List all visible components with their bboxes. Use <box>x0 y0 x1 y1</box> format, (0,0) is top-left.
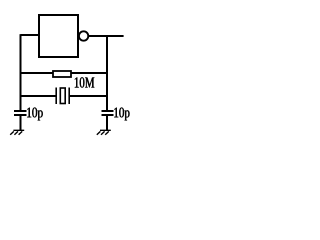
label 10p for capacitor C1 <box>27 108 43 121</box>
ground right <box>97 130 111 135</box>
wire crystal left <box>21 95 57 97</box>
wire C1 to ground <box>20 115 22 130</box>
crystal Y1 right plate <box>68 88 70 105</box>
wire left rail node A <box>20 34 22 111</box>
capacitor C2 top plate <box>102 110 114 112</box>
wire right rail node B <box>106 36 108 111</box>
capacitor C2 bottom plate <box>102 114 114 116</box>
inverter U1 box <box>39 15 78 57</box>
capacitor C1 bottom plate <box>14 114 27 116</box>
inverter output bubble <box>79 31 88 40</box>
wire output from bubble <box>88 35 123 37</box>
wire resistor left <box>21 72 54 74</box>
wire input from node A to inverter <box>21 34 40 36</box>
wire C2 to ground <box>106 115 108 130</box>
wire resistor right <box>71 72 108 74</box>
resistor R1 body <box>53 71 71 77</box>
capacitor C1 top plate <box>14 110 27 112</box>
crystal Y1 left plate <box>55 88 57 105</box>
ground left <box>10 130 24 135</box>
wire crystal right <box>69 95 107 97</box>
label 10M for resistor R1 <box>75 77 95 87</box>
label 10p for capacitor C2 <box>114 108 129 121</box>
crystal Y1 body <box>60 88 65 104</box>
